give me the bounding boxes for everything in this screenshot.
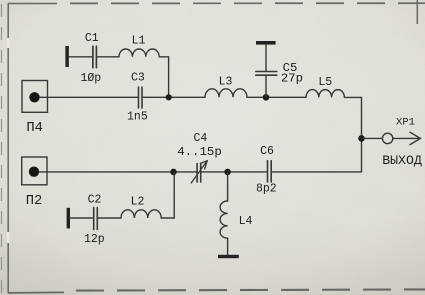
wire xyxy=(227,238,229,255)
node J1 xyxy=(166,94,172,100)
variable capacitor C4 xyxy=(191,161,207,183)
wire xyxy=(265,45,267,72)
inductor L2 xyxy=(121,210,161,218)
wire xyxy=(97,56,119,58)
wire xyxy=(40,96,139,98)
inductor L3 xyxy=(205,89,247,98)
wire xyxy=(69,56,93,58)
svg-text:8p2: 8p2 xyxy=(256,182,277,195)
node J3 xyxy=(358,135,365,142)
wire from J5 down xyxy=(227,172,229,201)
svg-text:L2: L2 xyxy=(131,195,145,208)
ground bar left of C2 xyxy=(67,208,70,229)
connector П2 xyxy=(22,157,47,185)
svg-text:L4: L4 xyxy=(239,215,253,228)
wire xyxy=(70,217,94,219)
svg-text:27p: 27p xyxy=(281,71,303,85)
svg-text:L5: L5 xyxy=(318,76,332,89)
svg-text:1Øp: 1Øp xyxy=(80,72,101,85)
svg-text:П2: П2 xyxy=(26,194,43,209)
svg-text:1n5: 1n5 xyxy=(127,111,148,124)
svg-text:C2: C2 xyxy=(88,194,102,207)
inductor L1 xyxy=(119,49,159,57)
wire xyxy=(344,97,361,171)
wire xyxy=(142,96,205,98)
wire xyxy=(98,217,121,219)
svg-text:C6: C6 xyxy=(260,145,274,158)
capacitor C2 xyxy=(94,208,98,230)
ground bar (chassis) left of C1 xyxy=(65,46,68,67)
ground bar above C5 xyxy=(256,41,276,45)
svg-text:C1: C1 xyxy=(85,32,99,45)
inductor L5 xyxy=(306,90,344,98)
svg-text:ВЫХОД: ВЫХОД xyxy=(382,153,422,168)
svg-text:XP1: XP1 xyxy=(396,116,415,128)
wire xyxy=(247,96,306,98)
wire xyxy=(39,171,197,173)
node J4 xyxy=(170,169,177,176)
wire xyxy=(201,171,267,173)
svg-text:L3: L3 xyxy=(219,76,233,89)
ground bar below L4 xyxy=(218,255,239,258)
wire xyxy=(159,57,168,98)
capacitor C1 xyxy=(93,46,97,67)
svg-text:L1: L1 xyxy=(132,34,146,47)
wire xyxy=(265,76,267,98)
svg-text:П4: П4 xyxy=(26,121,43,136)
wire xyxy=(161,172,174,218)
svg-text:C3: C3 xyxy=(131,71,145,84)
node J2 xyxy=(263,94,270,101)
inductor L4 xyxy=(220,201,228,238)
wire xyxy=(272,171,362,173)
capacitor C6 xyxy=(268,161,272,182)
border gaps (scan artifacts) xyxy=(7,38,9,243)
connector П4 xyxy=(22,81,48,113)
capacitor C3 xyxy=(139,87,143,108)
svg-text:4..15p: 4..15p xyxy=(177,145,222,159)
svg-text:C4: C4 xyxy=(193,132,207,145)
connector XP1 xyxy=(382,132,420,144)
node J5 xyxy=(224,169,231,176)
capacitor C5 xyxy=(256,72,277,76)
outer dashed page edge (left) xyxy=(1,4,3,293)
svg-text:12p: 12p xyxy=(84,233,105,246)
wire to XP1 xyxy=(362,137,383,139)
